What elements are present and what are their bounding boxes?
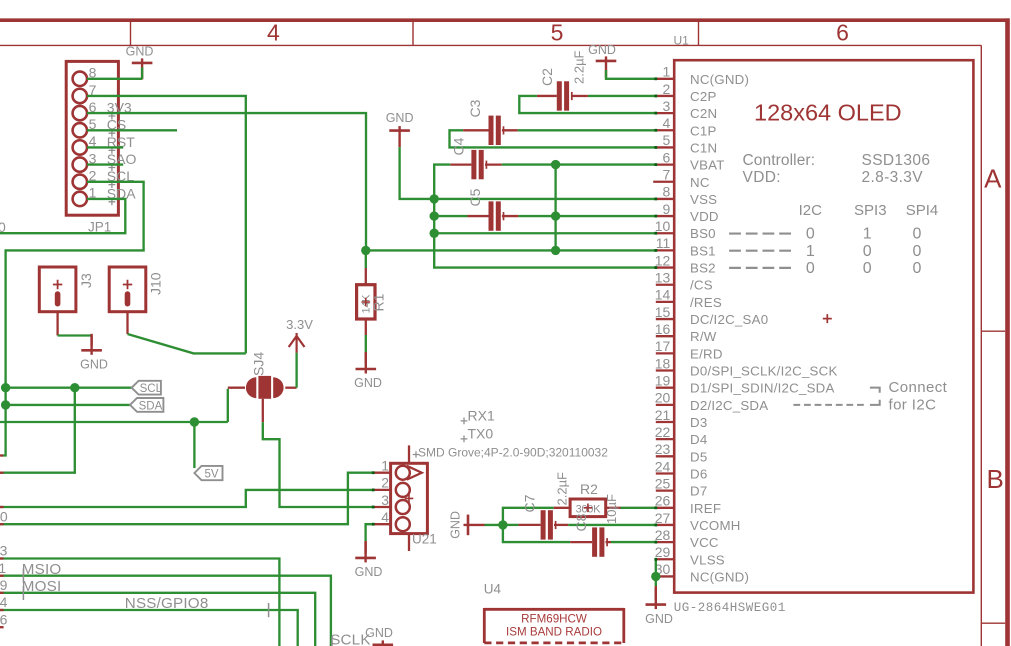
U21 pin 2 stub (373, 489, 390, 491)
svg-text:J10: J10 (148, 272, 164, 295)
U1 pin 1 connection point (654, 77, 657, 80)
junction on SCL at x=74.8 (70, 383, 79, 392)
wire C8 to U1 pin28 (VCC) (611, 541, 656, 543)
U1 pin number 26 (655, 493, 671, 509)
junction 5V tap (190, 417, 199, 426)
U21 pin 1 stub (373, 472, 390, 474)
svg-text:MOSI: MOSI (22, 578, 62, 595)
U1 pin 4 stub (656, 129, 674, 131)
svg-text:0: 0 (806, 260, 815, 277)
svg-text:BS2: BS2 (690, 261, 716, 276)
table value BS2 I2C (806, 260, 815, 277)
svg-text:14: 14 (655, 287, 671, 303)
svg-text:0: 0 (863, 260, 872, 277)
junction on SDA at x=5.6 (1, 400, 10, 409)
wire C2 left lead (537, 95, 557, 97)
wire C4 right lead (485, 163, 502, 165)
wire R1 bottom lead (365, 319, 367, 352)
U1 pin name C1P (690, 123, 717, 138)
svg-text:C1P: C1P (690, 123, 717, 138)
value 10uF (C8) (604, 494, 619, 524)
U1 pin 9 connection point (654, 215, 657, 218)
power 3.3V supply arrow (289, 333, 305, 353)
label C8 (573, 513, 589, 531)
U1 pin name R/W (690, 329, 717, 344)
JP1 pin 3 origin cross (109, 164, 116, 171)
U1 pin number 15 (655, 304, 671, 320)
svg-text:C2N: C2N (690, 106, 717, 121)
wire C7 left lead (503, 524, 541, 526)
U21 pin number 4 (381, 509, 389, 525)
left edge stub (SCL branch row) (0, 472, 4, 474)
U1 pin number 3 (663, 98, 671, 114)
wire C7 right lead (554, 524, 568, 526)
svg-text:2: 2 (381, 475, 389, 491)
svg-text:0: 0 (912, 226, 921, 243)
ground GND left of C7 (rotated) (449, 511, 485, 539)
svg-text:VSS: VSS (690, 192, 717, 207)
table value BS0 I2C (806, 226, 815, 243)
U1 pin 23 stub (656, 455, 674, 457)
label SJ4 (250, 352, 266, 376)
wire JP1 pin8 to GND (87, 78, 142, 80)
table value BS0 SPI3 (863, 226, 872, 243)
JP1 pin 4 origin cross (109, 147, 116, 154)
U1 pin 8 stub (656, 198, 674, 200)
U21 pin 2 connection point (372, 489, 375, 492)
text ISM BAND RADIO (506, 626, 602, 639)
wire from GND down to U1 pin 1 (606, 70, 656, 79)
U1 pin number 24 (655, 458, 671, 474)
U1 pin name D0/SPI_SCLK/I2C_SCK (690, 364, 838, 379)
wire R2 to U1 pin26 (IREF) (621, 507, 656, 509)
U1 origin cross (823, 314, 832, 323)
U1 pin number 22 (655, 424, 671, 440)
svg-text:GND: GND (126, 44, 154, 58)
U1 pin name /RES (690, 295, 722, 310)
U1 pin number 25 (655, 475, 671, 491)
U1 pin 5 connection point (654, 146, 657, 149)
U1 pin name BS2 (690, 261, 716, 276)
table value BS0 SPI4 (912, 226, 921, 243)
value 2.2uF (C7) (555, 472, 570, 506)
U21 bottom lead (408, 534, 410, 551)
svg-text:9: 9 (663, 201, 671, 217)
svg-text:C7: C7 (522, 494, 538, 512)
frame row divider A/B (981, 330, 1005, 332)
svg-text:B: B (987, 464, 1004, 494)
U1 pin name D3 (690, 415, 707, 430)
wire J10 lead down (126, 312, 128, 334)
U1 pin name NC(GND) (690, 72, 749, 87)
U1 pin name D6 (690, 466, 707, 481)
wire net SCL row (6, 387, 132, 389)
svg-text:3: 3 (663, 98, 671, 114)
value 300K (R2) (576, 503, 601, 515)
U1 pin number 18 (655, 355, 671, 371)
ground GND above U1 pin 1 (588, 43, 616, 77)
JP1 pin label CS (107, 117, 126, 133)
left edge stub H4 (0, 609, 4, 611)
wire 5V tap down to flag (193, 422, 195, 468)
U1 pin 10 connection point (654, 232, 657, 235)
connector JP1 outline (66, 61, 118, 215)
junction C7/GND rail (498, 520, 507, 529)
ground GND above C4 rail (386, 111, 414, 147)
left edge stub H2 (0, 575, 4, 577)
svg-text:RFM69HCW: RFM69HCW (521, 613, 587, 626)
U1 pin number 13 (655, 270, 671, 286)
wire U1 pin4 row (C3 right) (518, 129, 656, 131)
svg-text:U4: U4 (484, 582, 502, 597)
wire C2 left to U1 pin3 (519, 96, 656, 113)
U1 pin number 14 (655, 287, 671, 303)
label C4 (451, 137, 467, 155)
svg-text:2: 2 (663, 81, 671, 97)
table value BS2 SPI3 (863, 260, 872, 277)
frame row label B (987, 464, 1004, 494)
label C3 (467, 99, 483, 117)
U1 pin 16 stub (656, 335, 674, 337)
frame column divider 3/4 (130, 22, 132, 45)
JP1 pin label SAO (107, 151, 137, 167)
JP1 pin 1 circle (73, 192, 87, 206)
capacitor C7 (541, 510, 556, 539)
svg-text:4: 4 (381, 509, 389, 525)
U1 pin name D4 (690, 432, 707, 447)
wire GND rail x=434 (434, 165, 656, 268)
junction U1 pin30 / GND (651, 572, 660, 581)
U1 pin number 9 (663, 201, 671, 217)
U1 pin name VCOMH (690, 518, 741, 533)
junction GND rail / BS0 row (430, 229, 439, 238)
svg-text:R1: R1 (371, 293, 387, 311)
U1 pin number 4 (663, 115, 671, 131)
JP1 pin 6 circle (73, 106, 87, 120)
svg-text:0: 0 (0, 219, 6, 235)
wire VDD rail x=555.6 (554, 165, 556, 251)
svg-text:D4: D4 (690, 432, 707, 447)
frame column divider 5/6 (698, 22, 700, 45)
capacitor C4 (471, 150, 486, 179)
U1 pin 3 stub (656, 112, 674, 114)
left edge cut pin number fragment 9 (0, 577, 8, 593)
label R2 (580, 481, 598, 497)
wire net 5V row (0, 421, 228, 423)
junction GND rail / VSS row (430, 194, 439, 203)
U1 pin name VBAT (690, 158, 725, 173)
frame column label 5 (551, 20, 564, 46)
U1 pin 11 stub (656, 249, 674, 251)
U21 pin 3 circle (396, 500, 410, 514)
wire rail down to C8 row (503, 525, 570, 542)
svg-text:0: 0 (912, 260, 921, 277)
wire C5 left lead (434, 215, 488, 217)
svg-text:D3: D3 (690, 415, 707, 430)
svg-text:4: 4 (663, 115, 671, 131)
U1 pin29 connection point (654, 558, 657, 561)
svg-text:3: 3 (381, 492, 389, 508)
wire SJ4 centre to U21 pin 3 (263, 422, 373, 507)
U1 pin 18 stub (656, 369, 674, 371)
JP1 pin 1 origin cross (109, 198, 116, 205)
wire net (H1) to radio (0, 559, 279, 646)
svg-text:0: 0 (912, 243, 921, 260)
wire U1 pin29 (VLSS) down to pin30 (655, 559, 657, 576)
U1 pin name C1N (690, 140, 717, 155)
svg-text:28: 28 (655, 527, 671, 543)
svg-text:D6: D6 (690, 466, 707, 481)
U1 pin 20 stub (656, 404, 674, 406)
U1 pin 28 connection point (654, 541, 657, 544)
U1 pin 15 stub (656, 318, 674, 320)
wire J10 diagonal to JP1-pin7 net (128, 334, 246, 353)
frame row divider B/C (981, 622, 1005, 624)
svg-text:10µF: 10µF (604, 494, 619, 524)
JP1 pin number 6 (89, 99, 97, 115)
R1 origin cross (362, 298, 371, 307)
svg-text:VCOMH: VCOMH (690, 518, 741, 533)
U21 pin number 1 (381, 458, 389, 474)
svg-text:15: 15 (655, 304, 671, 320)
U1 pin 7 stub (653, 181, 674, 183)
JP1 pin number 2 (89, 168, 97, 184)
svg-text:VLSS: VLSS (690, 552, 725, 567)
svg-text:J3: J3 (78, 273, 94, 288)
JP1 pin number 7 (89, 82, 97, 98)
svg-text:4: 4 (267, 20, 280, 46)
value 2.2uF (C2) (572, 50, 587, 84)
MOSI label origin cross (22, 586, 24, 600)
svg-text:IREF: IREF (690, 501, 721, 516)
JP1 pin 7 circle (73, 89, 87, 103)
U1 pin number 5 (663, 132, 671, 148)
label SCLK (330, 632, 370, 646)
svg-text:18: 18 (655, 355, 671, 371)
U1 pin number 10 (655, 218, 671, 234)
svg-text:12: 12 (655, 252, 671, 268)
RX1 origin cross (461, 418, 468, 425)
U1 pin name VSS (690, 192, 717, 207)
svg-text:DC/I2C_SA0: DC/I2C_SA0 (690, 312, 768, 327)
ground GND below J3 (80, 334, 108, 372)
U1 pin 12 connection point (654, 266, 657, 269)
text Controller: (743, 152, 816, 169)
JP1 pin label SCL (107, 168, 134, 184)
svg-text:6: 6 (0, 611, 8, 627)
svg-text:VDD: VDD (690, 209, 719, 224)
U1 pin 19 stub (656, 387, 674, 389)
left edge stub (no wire) (0, 626, 4, 628)
label C5 (467, 188, 483, 206)
U1 pin name /CS (690, 278, 713, 293)
wire U1 pin2 row (C2 right) (588, 95, 656, 97)
svg-text:0: 0 (806, 226, 815, 243)
svg-text:GND: GND (365, 626, 393, 640)
U1 pin number 6 (663, 149, 671, 165)
svg-text:MSIO: MSIO (22, 561, 62, 578)
label R1 (371, 293, 387, 311)
U1 pin number 23 (655, 441, 671, 457)
wire SJ4 left lead to 5V net (228, 388, 245, 422)
svg-text:GND: GND (355, 565, 383, 579)
junction GND rail / C5 row (430, 211, 439, 220)
NSS/GPIO8 label origin cross (268, 603, 270, 617)
U1 pin name NC(GND) (690, 569, 749, 584)
label J3 (78, 273, 94, 288)
U1 pin number 17 (655, 338, 671, 354)
U1 pin 30 stub (656, 575, 674, 577)
U1 pin 22 stub (656, 438, 674, 440)
label U4 (484, 582, 502, 597)
left edge stub (U21 pin1 net) (0, 523, 4, 525)
svg-text:R/W: R/W (690, 329, 717, 344)
U1 pin name C2P (690, 89, 717, 104)
U1 pin number 16 (655, 321, 671, 337)
svg-text:2.2µF: 2.2µF (555, 472, 570, 506)
wire net SCL JP1 pin2 down-left (2, 182, 144, 456)
wire R2 left lead (554, 507, 570, 509)
left edge cut pin number fragment 3 (0, 543, 8, 559)
svg-text:BS1: BS1 (690, 243, 716, 258)
wire R2 right lead (606, 507, 621, 509)
U1 pin number 1 (663, 64, 671, 80)
text 3.3V (286, 317, 313, 332)
wire net SDA row (6, 404, 130, 406)
svg-text:C5: C5 (467, 188, 483, 206)
table dashes BS0 (729, 232, 791, 234)
U1 pin number 19 (655, 372, 671, 388)
svg-text:1: 1 (0, 560, 6, 576)
svg-text:A: A (984, 164, 1002, 194)
svg-text:24: 24 (655, 458, 671, 474)
U1 pin number 28 (655, 527, 671, 543)
U1 pin 1 stub (656, 78, 674, 80)
left edge cut pin number fragment 0 (0, 508, 8, 524)
capacitor C3 (489, 116, 504, 145)
U21 pin 3 stub (373, 506, 390, 508)
U1 pin name VDD (690, 209, 719, 224)
title text 128x64 OLED (754, 100, 902, 126)
U1 pin 6 connection point (654, 163, 657, 166)
text Connect (889, 379, 948, 396)
JP1 pin 8 circle (73, 72, 87, 86)
svg-text:21: 21 (655, 407, 671, 423)
svg-text:D1/SPI_SDIN/I2C_SDA: D1/SPI_SDIN/I2C_SDA (690, 381, 835, 396)
MSIO label origin cross (22, 569, 24, 583)
U1 pin name D2/I2C_SDA (690, 398, 768, 413)
U1 pin 9 stub (656, 215, 674, 217)
U1 pin 25 stub (656, 489, 674, 491)
R2 origin cross (584, 504, 593, 513)
svg-text:ISM BAND RADIO: ISM BAND RADIO (506, 626, 602, 639)
svg-text:SCL: SCL (140, 383, 163, 395)
U21 pin 2 circle (396, 483, 410, 497)
svg-text:C2P: C2P (690, 89, 717, 104)
junction 3V3/R1/BS1 row (361, 246, 370, 255)
resistor R1 (357, 285, 375, 319)
U21 pin 4 stub (373, 523, 390, 525)
svg-text:8: 8 (663, 184, 671, 200)
wire rail up to R2 row (503, 508, 554, 525)
U1 pin 27 stub (656, 524, 674, 526)
solder jumper SJ4 (246, 376, 284, 399)
TX0 origin cross (461, 436, 468, 443)
U1 pin number 12 (655, 252, 671, 268)
text TX0 (468, 426, 494, 442)
U1 pin number 2 (663, 81, 671, 97)
U1 pin name BS1 (690, 243, 716, 258)
left edge cut pin number fragment 0 (SDA row) (0, 219, 6, 235)
svg-text:10: 10 (655, 218, 671, 234)
ground GND near SCLK (cut at bottom edge) (365, 626, 393, 646)
svg-text:U21: U21 (412, 532, 437, 547)
wire net 3V3 JP1 pin6 to R1 top junction (87, 113, 366, 250)
table value BS2 SPI4 (912, 260, 921, 277)
svg-text:RX1: RX1 (468, 408, 495, 424)
junction VDD rail / VDD row (551, 211, 560, 220)
U1 pin number 8 (663, 184, 671, 200)
svg-text:I2C: I2C (799, 202, 823, 219)
U1 pin 29 stub (656, 558, 674, 560)
svg-text:6: 6 (836, 20, 849, 46)
JP1 pin label SDA (107, 185, 136, 201)
frame outer right border (1005, 18, 1010, 646)
left edge stub (row 455.5) (0, 454, 3, 456)
U1 pin name VCC (690, 535, 719, 550)
wire JP1 pin4 RST stub (87, 146, 123, 148)
U21 pin1 polarity triangle (407, 466, 422, 480)
U1 pin 13 stub (656, 284, 674, 286)
U1 pin 14 stub (656, 301, 674, 303)
wire U1 pin11 row (BS1) from R1 junction (366, 249, 656, 251)
SCLK label origin cross (331, 638, 333, 646)
label U21 (412, 532, 437, 547)
svg-text:C8: C8 (573, 513, 589, 531)
JP1 pin 2 circle (73, 175, 87, 189)
table dashes BS2 (729, 267, 791, 269)
svg-text:17: 17 (655, 338, 671, 354)
svg-text:19: 19 (655, 372, 671, 388)
label U1 (part name) (674, 34, 690, 48)
U1 pin 8 connection point (654, 198, 657, 201)
wire GND rail down then right to U1 pin 8 (VSS) (400, 147, 656, 199)
wire GND to C7 junction (485, 524, 503, 526)
svg-text:20: 20 (655, 390, 671, 406)
svg-text:SMD Grove;4P-2.0-90D;320110032: SMD Grove;4P-2.0-90D;320110032 (418, 446, 608, 460)
capacitor C2 (557, 81, 572, 110)
ground GND below R1 (354, 352, 382, 390)
U1 pin 5 stub (656, 146, 674, 148)
label JP1 (88, 220, 111, 235)
table header SPI4 (906, 202, 939, 219)
svg-text:SPI4: SPI4 (906, 202, 939, 219)
label C2 (539, 68, 555, 86)
U1 pin 2 connection point (654, 95, 657, 98)
U1 pin 28 stub (656, 541, 674, 543)
svg-text:C1N: C1N (690, 140, 717, 155)
U1 pin 26 stub (656, 507, 674, 509)
U1 pin 17 stub (656, 352, 674, 354)
svg-text:C3: C3 (467, 99, 483, 117)
ground GND near JP1 pin 8 (126, 44, 154, 79)
JP1 pin number 8 (89, 65, 97, 81)
U1 pin number 27 (655, 510, 671, 526)
wire SJ4 right lead (285, 387, 296, 389)
svg-text:5: 5 (551, 20, 564, 46)
JP1 pin 6 origin cross (109, 113, 116, 120)
svg-text:3.3V: 3.3V (286, 317, 313, 332)
